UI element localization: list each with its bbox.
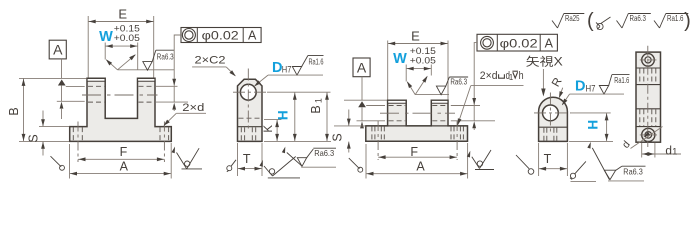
dim K view1 — [276, 120, 278, 142]
dim E view1 — [87, 16, 89, 78]
svg-text:H: H — [276, 110, 291, 120]
leader D view2 — [570, 93, 625, 95]
side view 2 outline — [539, 97, 568, 141]
feature frame view1 — [181, 28, 261, 43]
side view 2 base top line — [539, 126, 568, 128]
leader channel walls view1 — [107, 60, 118, 70]
svg-text:+0.15: +0.15 — [114, 24, 140, 34]
ext post top view2 — [344, 99, 387, 101]
rough check T right view2 — [570, 173, 575, 178]
side view 2 horizontal center line — [534, 112, 571, 114]
svg-text:A: A — [120, 159, 129, 173]
svg-text:H7: H7 — [586, 83, 596, 94]
svg-text:φ0.02: φ0.02 — [500, 37, 538, 51]
svg-text:Ra6.3: Ra6.3 — [314, 149, 334, 158]
svg-text:Ra1.6: Ra1.6 — [667, 14, 684, 23]
side view 2 vertical center line — [549, 93, 551, 135]
view X direction arrow — [542, 69, 544, 90]
rough check view2 bottom-left — [349, 158, 360, 169]
side view 2 hole D — [543, 105, 559, 121]
svg-text:B: B — [7, 107, 21, 115]
datum A view2 box — [353, 58, 370, 77]
Ra6.3 with arrow B1 right — [282, 147, 286, 154]
dim E view2 — [387, 41, 389, 100]
Ra6.3 view1 — [143, 62, 152, 71]
dim d1 viewX — [641, 143, 643, 158]
dim T view2 — [538, 143, 540, 176]
dim A view2 — [365, 144, 367, 179]
ext base bottom right view2 — [569, 140, 613, 142]
svg-text:Ra6.3: Ra6.3 — [623, 168, 643, 177]
svg-text:): ) — [684, 10, 691, 32]
svg-text:A: A — [545, 37, 554, 51]
front view 1 part outline — [70, 78, 172, 141]
dim B1 view1side — [326, 92, 328, 141]
side view 1 outline — [238, 79, 263, 141]
svg-text:Ra6.3: Ra6.3 — [630, 14, 647, 23]
svg-text:1: 1 — [314, 98, 324, 103]
front view 2 base hole center lines — [377, 121, 379, 160]
dim S view2 — [334, 125, 365, 127]
side view 1 base hole hidden lines — [240, 127, 242, 141]
note Ra6.3 — [617, 21, 623, 29]
ext hole center view1 side — [267, 91, 331, 93]
rough check T left view1 — [227, 166, 232, 171]
ext hole bottom left view2 — [357, 120, 386, 122]
right stack dim view2 — [473, 51, 475, 105]
view X hidden walls upper — [639, 69, 641, 85]
svg-text:S: S — [330, 133, 344, 141]
ext base bottom right view1 — [264, 140, 331, 142]
dim T view1 — [237, 143, 239, 176]
datum A view1 lower line — [61, 86, 63, 101]
view X hidden walls lower — [639, 109, 641, 126]
view X section lines — [636, 67, 661, 69]
rough check view2 bottom-right — [467, 151, 471, 158]
front view 2 hole hidden lines — [389, 105, 406, 107]
svg-text:+0.15: +0.15 — [410, 46, 436, 56]
svg-text:2×C2: 2×C2 — [195, 55, 226, 67]
ext K top view1 — [264, 119, 281, 121]
front view 1 post chamfer lines — [87, 80, 105, 82]
svg-text:2×d: 2×d — [182, 102, 204, 114]
side view 1 horizontal center line — [233, 91, 268, 93]
leader 2xd view2 — [471, 85, 524, 87]
front view 1 post chamfer strips — [88, 79, 105, 81]
svg-text:W: W — [99, 29, 113, 45]
view X bottom hole — [642, 128, 655, 141]
svg-text:Ra6.3: Ra6.3 — [450, 78, 467, 87]
svg-text:F: F — [410, 145, 418, 159]
svg-text:A: A — [53, 42, 63, 58]
svg-text:1: 1 — [509, 73, 513, 82]
front view 1 hole D center line — [82, 94, 158, 96]
svg-text:A: A — [416, 159, 425, 173]
svg-text:(: ( — [587, 10, 594, 32]
rough check view1 bottom-left — [51, 156, 62, 167]
side view 1 hole D — [240, 84, 256, 100]
svg-text:A: A — [357, 59, 367, 75]
ext hole bottom left view1 — [57, 100, 85, 102]
side view 2 base hole hidden lines — [543, 128, 545, 141]
svg-text:矢視X: 矢視X — [526, 55, 563, 69]
side view 1 vertical center line — [247, 69, 249, 131]
svg-text:d: d — [665, 145, 672, 157]
frame leader view1 — [174, 35, 181, 47]
svg-text:Ra1.6: Ra1.6 — [614, 76, 629, 85]
svg-text:φ0.02: φ0.02 — [202, 29, 239, 43]
datum A view1 triangle — [58, 80, 66, 86]
view X center line — [647, 46, 649, 147]
Ra1.6 view2 — [599, 86, 608, 95]
view X top hole — [642, 54, 655, 67]
dim A view1 — [69, 144, 71, 179]
ext hole center view2 side — [571, 112, 611, 114]
datum A view1 box — [49, 40, 66, 59]
svg-text:H: H — [585, 120, 600, 130]
front view 2 left base hole hidden — [371, 126, 373, 140]
svg-text:2×d: 2×d — [480, 70, 498, 82]
svg-text:A: A — [248, 29, 257, 43]
front view 1 base hole center lines — [77, 122, 79, 163]
dim B view1 — [19, 77, 87, 79]
rough check view1 bottom-right — [172, 147, 176, 154]
Ra6.3 with arrow view2 right — [587, 142, 591, 149]
right stack dim view1 — [173, 47, 175, 86]
svg-text:D: D — [575, 79, 585, 95]
datum A view1 stem — [61, 59, 63, 79]
svg-text:Ra1.6: Ra1.6 — [309, 57, 324, 66]
dim W view2 — [405, 65, 407, 82]
Ra6.3 view2 — [436, 86, 445, 95]
dim W view1 — [104, 43, 106, 60]
leader d viewX — [631, 127, 663, 149]
svg-text:K: K — [263, 125, 275, 133]
dim S view1 — [39, 126, 69, 128]
svg-text:1: 1 — [672, 146, 677, 157]
ext hole top left view2 — [366, 105, 385, 107]
dim F view2 — [378, 156, 457, 158]
feature frame view2 — [477, 34, 557, 51]
view X outline — [636, 52, 661, 142]
note Ra25 — [552, 21, 558, 29]
svg-text:+0.05: +0.05 — [410, 56, 436, 66]
front view 1 right base hole hidden — [159, 127, 161, 141]
datum A view2 triangle — [358, 101, 366, 107]
leader channel walls view2 — [407, 82, 415, 95]
ext hole top left view1 — [66, 85, 85, 87]
svg-text:S: S — [27, 134, 41, 142]
dim F view1 — [78, 158, 164, 160]
front view 2 post chamfers — [388, 102, 407, 104]
front view 2 post chamfer strips — [388, 101, 405, 103]
front view 1 hole D hidden lines — [88, 85, 104, 87]
svg-text:W: W — [393, 51, 407, 67]
leader R view2 — [560, 88, 563, 96]
rough check T right view1 — [260, 160, 263, 167]
svg-text:h: h — [519, 70, 524, 82]
front view 1 left base hole hidden — [72, 127, 74, 141]
svg-text:H7: H7 — [282, 65, 292, 76]
dim H view1 — [294, 92, 296, 141]
leader D view1 — [268, 74, 323, 76]
dim H view2 — [606, 113, 608, 141]
note circle check — [597, 23, 603, 29]
rough check T left view2 — [516, 155, 529, 169]
side view 1 base top line — [238, 126, 263, 128]
svg-text:T: T — [243, 152, 251, 166]
side view 1 channel bottom hidden — [239, 117, 262, 119]
svg-text:Ra25: Ra25 — [565, 14, 580, 23]
note Ra1.6 — [654, 21, 660, 29]
frame leader view2 — [474, 43, 477, 51]
front view 2 hole center line — [380, 112, 455, 114]
svg-text:F: F — [120, 145, 128, 159]
svg-text:E: E — [411, 29, 420, 44]
datum A view2 lower line — [361, 107, 363, 120]
svg-text:E: E — [118, 7, 127, 22]
front view 2 right base hole hidden — [450, 126, 452, 140]
front view 2 part outline — [366, 100, 468, 141]
svg-text:Ra6.3: Ra6.3 — [157, 53, 174, 62]
front view 2 base top line — [366, 125, 468, 127]
svg-text:+0.05: +0.05 — [114, 33, 140, 43]
datum A view2 stem — [361, 77, 363, 101]
Ra1.6 view1 — [292, 67, 301, 76]
svg-text:T: T — [544, 152, 552, 166]
svg-text:B: B — [309, 105, 323, 113]
